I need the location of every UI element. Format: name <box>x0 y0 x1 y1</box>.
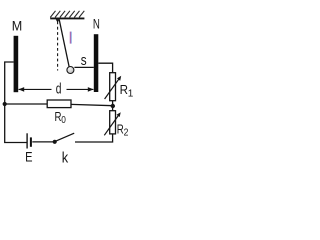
wire R1 to junction <box>112 101 114 106</box>
wire R2 to bottom rail <box>75 134 113 142</box>
battery E short plate <box>30 137 32 146</box>
svg-text:M: M <box>12 17 22 33</box>
wire rail to R0 <box>5 103 48 105</box>
switch k pivot node <box>53 140 57 144</box>
svg-text:s: s <box>81 52 87 69</box>
svg-text:0: 0 <box>61 115 66 126</box>
svg-text:E: E <box>25 149 32 165</box>
wire ball to plate N <box>74 66 93 68</box>
rheostat R1 arrow <box>105 78 120 99</box>
resistor R0 box <box>47 100 71 108</box>
rheostat R2 box <box>110 111 116 134</box>
pivot knot <box>56 19 60 23</box>
svg-text:1: 1 <box>128 89 134 100</box>
wire R0 to right junction <box>71 104 113 105</box>
thread l <box>59 20 69 67</box>
svg-text:2: 2 <box>124 128 129 139</box>
dashed plumb line <box>57 22 59 71</box>
rheostat R1 box <box>110 73 116 101</box>
ball s <box>67 67 74 74</box>
wire battery to switch <box>32 141 54 143</box>
plate M <box>14 36 19 92</box>
wire plate M to left rail <box>5 62 14 104</box>
battery E long plate <box>26 133 28 148</box>
left rail wire down <box>5 104 28 143</box>
dimension arrow d right segment <box>67 88 94 90</box>
ceiling hatching <box>50 11 84 18</box>
svg-text:R: R <box>120 82 128 97</box>
label l <box>70 32 71 44</box>
plate N <box>94 34 99 92</box>
wire junction to R2 <box>112 106 114 111</box>
switch k blade <box>55 133 74 141</box>
wire plate N to R1 <box>98 63 112 72</box>
rheostat R2 arrow <box>104 115 119 136</box>
junction node right <box>111 104 115 108</box>
svg-text:N: N <box>93 15 100 31</box>
ceiling support bar <box>50 17 84 19</box>
junction node left <box>3 102 7 106</box>
dimension arrow d left segment <box>19 88 52 90</box>
svg-text:d: d <box>56 80 62 97</box>
svg-text:k: k <box>62 149 69 166</box>
